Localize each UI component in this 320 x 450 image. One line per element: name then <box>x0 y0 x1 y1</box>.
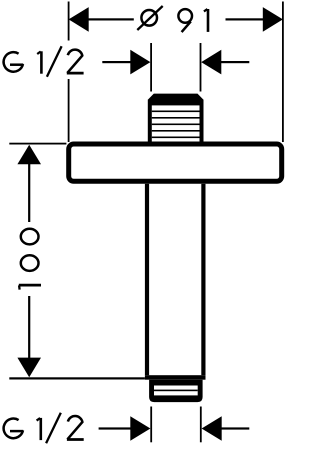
arrowhead right of Ø91 pointing right <box>263 7 283 32</box>
pipe right wall <box>201 184 205 375</box>
extension line left of Ø91 (upper segment) <box>68 2 70 41</box>
letter G of bottom G 1/2 <box>4 419 24 439</box>
arrowhead pointing left at thread right <box>201 50 221 75</box>
dimension line Ø91 right segment <box>226 18 264 20</box>
digit 0 of label 100 rotated (lower) <box>21 255 39 271</box>
thread ridge line 3 <box>152 124 200 126</box>
bottom fitting middle line <box>154 390 198 392</box>
arrowhead pointing left at fitting right <box>202 416 222 441</box>
pipe bottom rim <box>145 375 206 380</box>
diameter symbol slash <box>137 6 162 30</box>
thread ridge line 1 <box>152 111 200 113</box>
dimension line 100 upper segment <box>28 163 30 222</box>
arrowhead left of Ø91 pointing left <box>69 7 89 32</box>
thread block outer with chamfered top <box>148 94 204 142</box>
dimension line G1/2 bottom right <box>221 427 249 429</box>
thread ridge line 2 <box>152 117 200 119</box>
thread ridge line 4 <box>152 130 200 132</box>
letter G of top G 1/2 <box>4 52 24 72</box>
slash of bottom G 1/2 <box>46 413 61 444</box>
extension line 100 top <box>9 143 66 145</box>
pipe left wall <box>145 184 149 375</box>
digit 1 of bottom G 1/2 <box>37 418 41 440</box>
digit 9 of label 91 <box>178 9 192 32</box>
arrowhead pointing right at fitting left <box>130 416 150 441</box>
arrowhead pointing right at thread left <box>130 50 150 75</box>
thread ridge line 5 <box>152 137 200 139</box>
extension line thread right <box>200 43 202 92</box>
dimension line 100 lower segment <box>28 296 30 359</box>
extension line thread left <box>150 43 152 92</box>
extension line 100 bottom <box>9 377 145 379</box>
extension line right of Ø91 <box>282 2 284 143</box>
digit 2 of top G 1/2 <box>67 50 84 73</box>
bottom fitting white band <box>154 386 198 396</box>
digit 1 of label 91 <box>204 9 208 32</box>
bottom fitting body <box>149 380 203 402</box>
thread interior white <box>152 105 200 141</box>
diameter symbol circle <box>141 10 157 26</box>
flange rounded rectangle <box>69 144 282 181</box>
digit 1 of top G 1/2 <box>37 51 41 73</box>
dimension line G1/2 bottom left <box>99 427 131 429</box>
arrowhead 100 pointing up <box>17 145 41 165</box>
arrowhead 100 pointing down <box>17 358 41 378</box>
extension line fitting left <box>150 407 152 443</box>
digit 0 of label 100 rotated (upper) <box>21 229 39 245</box>
dimension line G1/2 top left <box>102 61 131 63</box>
dimension line G1/2 top right <box>221 61 249 63</box>
slash of top G 1/2 <box>47 46 62 77</box>
digit 2 of bottom G 1/2 <box>67 416 84 439</box>
extension line fitting right <box>200 407 202 443</box>
extension line left of Ø91 (lower segment) <box>68 79 70 142</box>
dimension line Ø91 left segment <box>88 18 134 20</box>
digit 1 of label 100 rotated <box>19 285 41 290</box>
